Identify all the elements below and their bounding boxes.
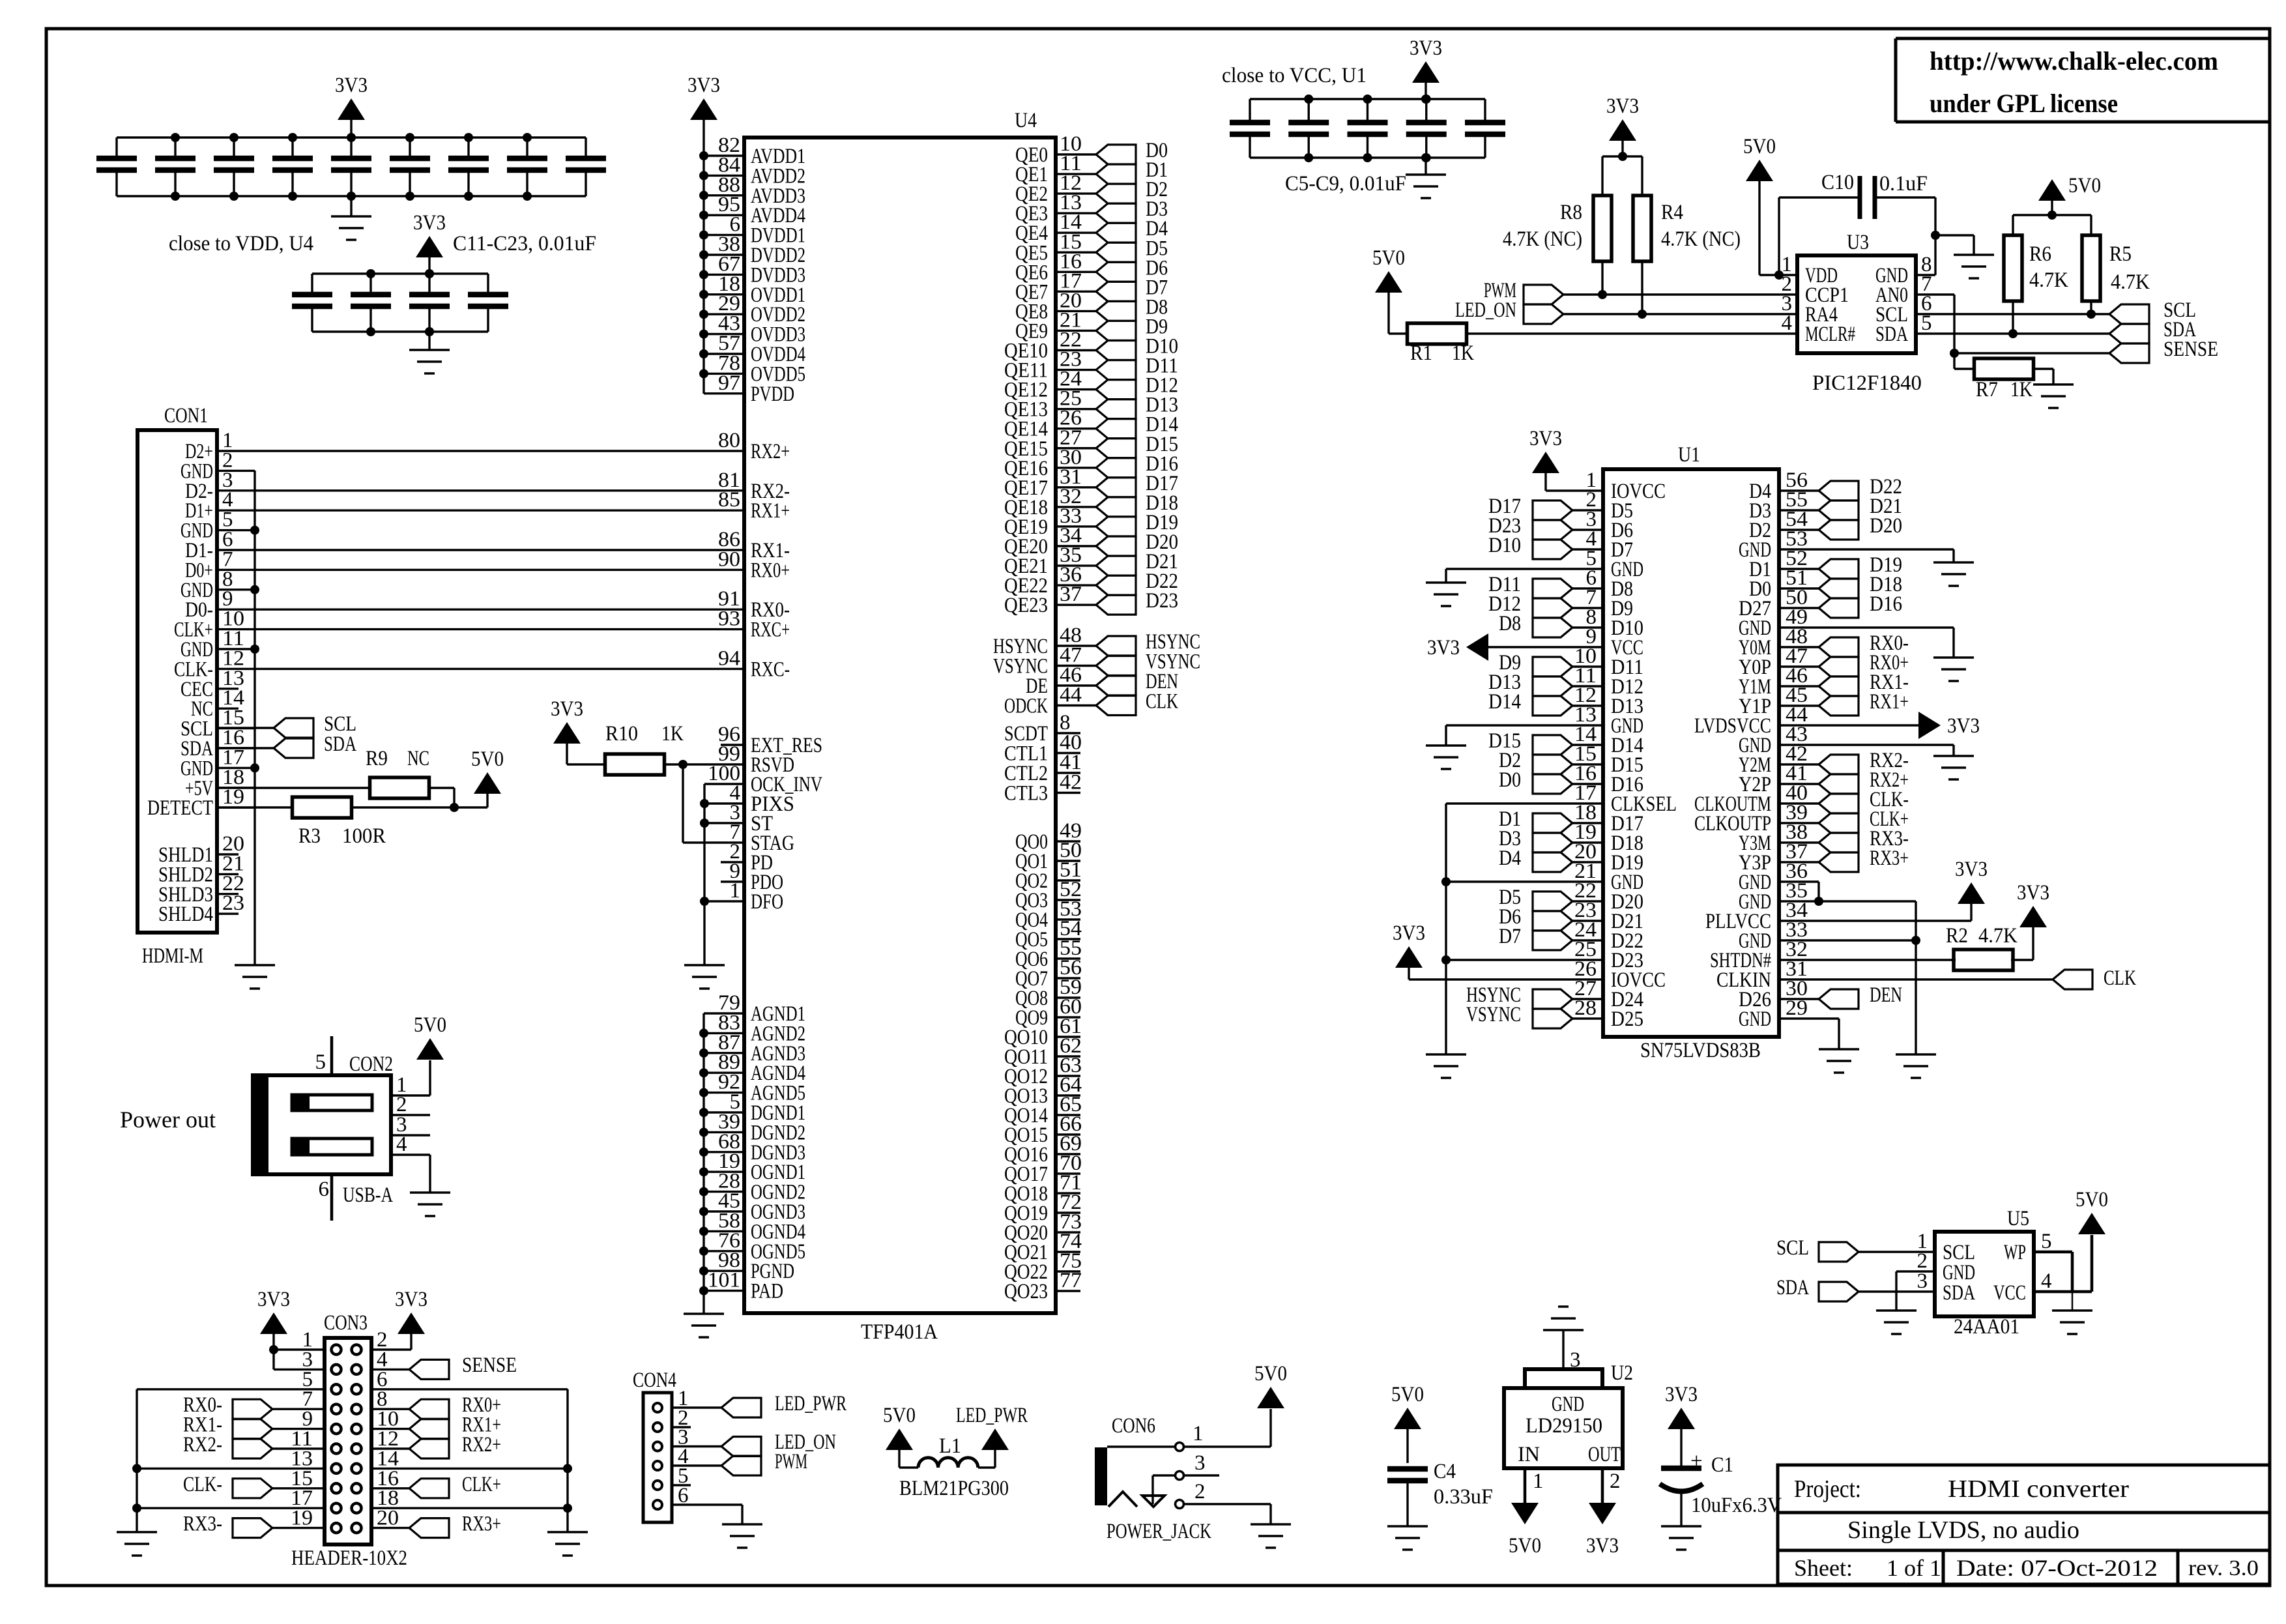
- wire CON6 pin2 to ground: [1184, 1504, 1271, 1524]
- svg-text:4.7K: 4.7K: [2111, 270, 2150, 294]
- svg-text:GND: GND: [1739, 1008, 1771, 1031]
- node RX0- flag (U1 pin 48): [1779, 631, 1909, 657]
- node CLK flag (U1 CLKIN): [2053, 966, 2136, 990]
- wire SDA flag to U5 pin3: [1859, 1290, 1935, 1292]
- node D18 flag (U1 pin 51): [1779, 573, 1902, 598]
- svg-text:OUT: OUT: [1588, 1443, 1621, 1466]
- wire 3V3 to U1 pin26: [1409, 968, 1603, 979]
- ground (U1 pin29): [1819, 1049, 1859, 1073]
- node D22 flag (U4 QE22): [1096, 570, 1178, 595]
- ground (second cap bank): [409, 332, 450, 373]
- svg-text:+: +: [1690, 1449, 1703, 1473]
- wire U1 pin53 GND to ground: [1779, 549, 1954, 562]
- node D23 flag (U1 pin 3): [1488, 514, 1603, 540]
- node RX1+ flag (U1 pin 45): [1779, 690, 1909, 716]
- svg-text:U4: U4: [1015, 109, 1037, 132]
- svg-text:1: 1: [1533, 1470, 1544, 1493]
- node D13 flag (U4 QE13): [1096, 394, 1178, 419]
- node HSYNC flag (U4 HSYNC): [1096, 630, 1200, 656]
- power 3V3 (C1): [1665, 1383, 1698, 1468]
- svg-text:Single LVDS, no audio: Single LVDS, no audio: [1847, 1516, 2079, 1544]
- connector CON6 POWER_JACK: [1095, 1414, 1219, 1543]
- svg-text:1 of 1: 1 of 1: [1887, 1555, 1941, 1581]
- svg-text:D23: D23: [1146, 589, 1178, 613]
- wire 5V0 to R6/R5 tops: [2013, 210, 2091, 235]
- wire CON1 pin6 D1- to U4 RX1-: [255, 549, 744, 551]
- svg-text:RX3+: RX3+: [1870, 847, 1909, 870]
- node CLK- flag (U1 pin 40): [1779, 788, 1909, 813]
- node SDA flag (CON1 pin16): [217, 732, 356, 758]
- svg-text:Project:: Project:: [1794, 1475, 1861, 1503]
- IC U1 SN75LVDS83B (LVDS serializer): [1574, 443, 1808, 1062]
- svg-text:SENSE: SENSE: [462, 1354, 517, 1377]
- node D9 flag (U1 pin 10): [1499, 651, 1603, 676]
- wire R10 junction to STAG pin: [683, 764, 744, 843]
- power 3V3 (U1 PLLVCC): [1955, 858, 1988, 904]
- svg-text:RX2+: RX2+: [462, 1433, 501, 1457]
- node RX0+ flag (CON3 right): [371, 1393, 501, 1419]
- wire U3 pin6 SCL to SCL flag: [1916, 310, 2109, 319]
- title block: [1778, 1465, 2270, 1584]
- node D2 flag (U4 QE2): [1096, 178, 1168, 203]
- node SDA flag (U5 pin3): [1776, 1276, 1859, 1301]
- node D1 flag (U1 pin 18): [1499, 807, 1603, 833]
- svg-text:CTL3: CTL3: [1004, 782, 1048, 805]
- svg-text:SDA: SDA: [1776, 1276, 1809, 1299]
- power 5V0 (R1 to MCLR#): [1372, 246, 1405, 334]
- node D7 flag (U4 QE7): [1096, 276, 1168, 301]
- power 3V3 (top cap bank): [335, 74, 368, 138]
- ground (U1 pin5): [1426, 583, 1466, 606]
- node SCL flag (U5 pin1): [1776, 1236, 1859, 1262]
- node RX0- flag (CON3 left): [183, 1393, 325, 1419]
- node RX2- flag (CON3 left): [183, 1433, 325, 1458]
- node LED_ON flag (to U3 RA4): [1455, 298, 1563, 324]
- node D19 flag (U4 QE19): [1096, 511, 1178, 536]
- node RX3- flag (CON3 pin19): [183, 1513, 325, 1538]
- wire CON3 pin1/pin3 to 3V3: [269, 1334, 325, 1369]
- ground (U4 gnd bus): [684, 1314, 724, 1337]
- svg-text:5V0: 5V0: [2076, 1188, 2108, 1211]
- node D14 flag (U4 QE14): [1096, 413, 1178, 439]
- svg-text:93: 93: [718, 607, 740, 631]
- svg-text:5V0: 5V0: [2068, 174, 2101, 197]
- node D4 flag (U1 pin 20): [1499, 847, 1603, 872]
- resistor R7 1K (sense divider): [1954, 358, 2053, 401]
- capacitor C10 0.1uF: [1779, 171, 1935, 275]
- svg-text:Power out: Power out: [120, 1107, 216, 1133]
- ground (CON3 left): [117, 1532, 157, 1556]
- node D10 flag (U1 pin 4): [1488, 534, 1603, 559]
- IC U5 24AA01 (EEPROM): [1917, 1207, 2052, 1339]
- svg-text:USB-A: USB-A: [343, 1183, 393, 1207]
- ground (C4): [1387, 1526, 1428, 1550]
- power 3V3 (U1 IOVCC pin1): [1529, 427, 1562, 473]
- wire CON1 pin7 D0+ to U4 RX0+: [255, 569, 744, 571]
- wire CON1 pin4 D1+ to U4 RX1+: [255, 510, 744, 512]
- svg-text:PIC12F1840: PIC12F1840: [1812, 371, 1922, 395]
- svg-text:RX0+: RX0+: [751, 558, 790, 582]
- power 5V0 (R6/R5 pull-ups): [2038, 174, 2101, 215]
- svg-text:RXC+: RXC+: [751, 618, 790, 642]
- svg-text:3V3: 3V3: [1606, 94, 1639, 118]
- wire CON1 pin1 D2+ to U4 RX2+: [255, 450, 744, 452]
- svg-text:5V0: 5V0: [1743, 135, 1776, 158]
- svg-text:PAD: PAD: [751, 1280, 783, 1303]
- node 3V3 right-arrow (U1 pin44 LVDSVCC): [1779, 712, 1980, 739]
- ground (U4 config pins): [684, 965, 725, 989]
- svg-text:CLK+: CLK+: [462, 1473, 501, 1496]
- wire 3V3 to R8/R4 tops: [1602, 152, 1642, 196]
- svg-text:20: 20: [377, 1507, 399, 1530]
- CON3 left ground rail wire (pins 5,13,17): [132, 1389, 325, 1532]
- svg-text:CON2: CON2: [349, 1052, 393, 1076]
- ground (U1 pin43): [1933, 756, 1974, 779]
- node RX3+ flag (CON3 pin20): [371, 1513, 501, 1538]
- svg-text:D20: D20: [1870, 514, 1902, 538]
- connector CON1 HDMI-M: [137, 404, 255, 968]
- svg-text:CON6: CON6: [1112, 1414, 1155, 1438]
- svg-text:GND: GND: [1552, 1393, 1584, 1416]
- wire CON1 pin12 CLK- to U4 RXC-: [255, 668, 744, 670]
- node D23 flag (U4 QE23): [1096, 589, 1178, 615]
- svg-text:R9: R9: [366, 747, 388, 770]
- svg-text:U2: U2: [1611, 1361, 1633, 1385]
- svg-text:D8: D8: [1499, 612, 1521, 635]
- CON3 right ground rail wire (pins 6,14,18): [371, 1389, 572, 1532]
- power 5V0 (CON2): [414, 1013, 446, 1060]
- svg-text:DEN: DEN: [1870, 983, 1902, 1007]
- svg-text:97: 97: [718, 371, 740, 395]
- svg-text:C4: C4: [1434, 1460, 1456, 1483]
- svg-text:LED_ON: LED_ON: [1455, 298, 1516, 322]
- ground (U1 CLKSEL rail): [1426, 1054, 1466, 1078]
- ground (CON2 pin4): [410, 1193, 450, 1216]
- node D8 flag (U1 pin 8): [1499, 612, 1603, 637]
- svg-text:3: 3: [1570, 1348, 1581, 1372]
- svg-text:SCL: SCL: [1776, 1236, 1809, 1260]
- resistor R2 4.7K (SHTDN# pull-up): [1779, 924, 2033, 970]
- node PWM flag (to U3 CCP1): [1484, 279, 1563, 304]
- wire U1 pin29 GND to ground: [1779, 1019, 1839, 1049]
- svg-text:VCC: VCC: [1993, 1281, 2026, 1305]
- node LED_PWR flag (CON4 pin1): [672, 1392, 846, 1417]
- svg-text:5V0: 5V0: [1254, 1362, 1287, 1385]
- svg-text:3: 3: [1917, 1269, 1928, 1293]
- svg-text:2: 2: [1610, 1470, 1621, 1493]
- svg-text:CLK: CLK: [1146, 690, 1178, 714]
- svg-text:SENSE: SENSE: [2163, 338, 2218, 361]
- node D9 flag (U4 QE9): [1096, 315, 1168, 340]
- svg-text:5: 5: [2041, 1230, 2052, 1253]
- node RX3+ flag (U1 pin 37): [1779, 847, 1909, 872]
- node CLK- flag (CON3 pin15): [183, 1473, 325, 1498]
- svg-text:ODCK: ODCK: [1004, 695, 1048, 718]
- ground (R7): [2033, 384, 2074, 408]
- node D20 flag (U4 QE20): [1096, 530, 1178, 556]
- power 3V3 (CON3 pins 1,3): [257, 1288, 290, 1334]
- svg-text:HDMI converter: HDMI converter: [1948, 1475, 2129, 1503]
- svg-text:WP: WP: [2004, 1241, 2026, 1264]
- node PWM flag (CON4 pin4): [672, 1450, 807, 1475]
- ground (top cap bank): [331, 196, 371, 240]
- node D20 flag (U1 pin 54): [1779, 514, 1902, 540]
- svg-text:R10: R10: [605, 722, 638, 746]
- svg-text:L1: L1: [939, 1434, 961, 1458]
- node RX1- flag (U1 pin 46): [1779, 671, 1909, 696]
- svg-text:5V0: 5V0: [471, 747, 504, 771]
- wire OCK_INV/PIXS/ST/DFO tie-down bus: [700, 784, 744, 965]
- svg-text:37: 37: [1060, 583, 1082, 606]
- ground (U1 pin49): [1933, 658, 1974, 681]
- svg-text:24AA01: 24AA01: [1954, 1315, 2019, 1339]
- svg-text:2: 2: [1194, 1480, 1206, 1503]
- wire U5 pin2 GND to ground: [1896, 1271, 1935, 1311]
- value label C5-C9, 0.01uF: [1285, 172, 1406, 196]
- power 3V3 (R8/R4 pull-ups): [1606, 94, 1639, 156]
- svg-text:D25: D25: [1611, 1008, 1643, 1031]
- node RX2+ flag (U1 pin 41): [1779, 768, 1909, 794]
- svg-text:R7: R7: [1976, 378, 1998, 401]
- svg-text:3V3: 3V3: [2017, 881, 2049, 905]
- svg-text:D7: D7: [1499, 925, 1521, 948]
- label close to VCC, U1: [1222, 64, 1367, 87]
- svg-text:19: 19: [291, 1507, 313, 1530]
- svg-text:3V3: 3V3: [395, 1288, 427, 1311]
- node D15 flag (U4 QE15): [1096, 433, 1178, 458]
- resistor R9 NC (+5V line): [217, 747, 454, 807]
- node D18 flag (U4 QE18): [1096, 491, 1178, 517]
- node D0 flag (U1 pin 16): [1499, 768, 1603, 794]
- power 5V0 (U5 VCC): [2076, 1188, 2108, 1234]
- node D17 flag (U4 QE17): [1096, 472, 1178, 497]
- svg-text:D14: D14: [1488, 690, 1521, 714]
- power 3V3 (second cap bank): [413, 211, 446, 274]
- node D21 flag (U4 QE21): [1096, 550, 1178, 575]
- svg-text:10uFx6.3V: 10uFx6.3V: [1691, 1494, 1782, 1517]
- svg-text:3V3: 3V3: [1947, 714, 1980, 738]
- resistor R3 100R (DETECT line): [217, 797, 487, 848]
- svg-text:1K: 1K: [1452, 341, 1474, 365]
- svg-text:3V3: 3V3: [413, 211, 446, 235]
- wire U1 CLKSEL/GND21/D23 tie rail: [1441, 804, 1603, 1054]
- svg-text:HEADER-10X2: HEADER-10X2: [291, 1546, 407, 1570]
- power 3V3 (R2): [2017, 881, 2049, 960]
- svg-text:VSYNC: VSYNC: [1466, 1003, 1521, 1026]
- svg-text:4.7K (NC): 4.7K (NC): [1503, 227, 1582, 251]
- resistor R6 4.7K (SDA pull-up): [2004, 235, 2068, 334]
- svg-text:R2: R2: [1946, 924, 1968, 948]
- svg-text:3V3: 3V3: [551, 697, 583, 721]
- wire LED_ON flag to U3 pin3: [1563, 310, 1797, 319]
- node D22 flag (U1 pin 56): [1779, 475, 1902, 500]
- svg-text:3V3: 3V3: [1410, 36, 1442, 60]
- wire U1 pin31 CLKIN to CLK flag: [1779, 978, 2053, 980]
- wire 5V0 to U3 pin1 VDD: [1759, 270, 1797, 280]
- node D0 flag (U4 QE0): [1096, 139, 1168, 164]
- wire CON6 pin1 to 5V0: [1184, 1409, 1271, 1447]
- svg-text:77: 77: [1060, 1269, 1082, 1292]
- svg-text:SDA: SDA: [1875, 323, 1908, 346]
- node RX1+ flag (CON3 right): [371, 1414, 501, 1439]
- ground (U1 pin35/33): [1896, 1054, 1936, 1078]
- node D4 flag (U4 QE4): [1096, 217, 1168, 242]
- wire U1 pin5 GND to ground: [1446, 569, 1603, 583]
- node D12 flag (U1 pin 7): [1488, 592, 1603, 618]
- svg-text:BLM21PG300: BLM21PG300: [899, 1477, 1009, 1500]
- svg-text:3V3: 3V3: [1665, 1383, 1698, 1406]
- node D14 flag (U1 pin 12): [1488, 690, 1603, 716]
- node D12 flag (U4 QE12): [1096, 374, 1178, 399]
- svg-text:HDMI-M: HDMI-M: [142, 944, 203, 968]
- IC U4 TFP401A (DVI receiver): [704, 109, 1096, 1344]
- svg-text:R3: R3: [298, 824, 321, 848]
- power 5V0 (C4): [1391, 1383, 1424, 1463]
- U4 analog/digital ground bus wire: [699, 1013, 708, 1314]
- node D6 flag (U4 QE6): [1096, 256, 1168, 282]
- svg-text:4.7K: 4.7K: [2029, 268, 2068, 292]
- svg-text:1K: 1K: [661, 722, 684, 746]
- svg-text:90: 90: [718, 547, 740, 571]
- node DEN flag (U1 pin30 D26): [1779, 983, 1902, 1009]
- svg-text:5V0: 5V0: [1509, 1534, 1541, 1558]
- svg-text:RX3+: RX3+: [462, 1513, 501, 1536]
- svg-text:3V3: 3V3: [257, 1288, 290, 1311]
- svg-text:3V3: 3V3: [687, 74, 720, 97]
- svg-text:DFO: DFO: [751, 890, 783, 914]
- svg-text:QO23: QO23: [1004, 1280, 1048, 1303]
- node D17 flag (U1 pin 2): [1488, 495, 1603, 520]
- svg-text:C10: C10: [1821, 171, 1854, 194]
- svg-text:CON3: CON3: [324, 1311, 368, 1335]
- svg-text:U1: U1: [1678, 443, 1700, 467]
- svg-text:MCLR#: MCLR#: [1805, 323, 1855, 346]
- svg-text:PWM: PWM: [775, 1450, 807, 1473]
- svg-text:SHLD4: SHLD4: [158, 903, 213, 926]
- svg-text:5V0: 5V0: [883, 1404, 916, 1427]
- node CLK flag (U4 ODCK): [1096, 690, 1178, 716]
- node D3 flag (U4 QE3): [1096, 197, 1168, 223]
- wire CON1 pin10 CLK+ to U4 RXC+: [255, 628, 744, 630]
- svg-text:42: 42: [1060, 771, 1082, 794]
- svg-text:LED_PWR: LED_PWR: [956, 1404, 1028, 1427]
- svg-text:POWER_JACK: POWER_JACK: [1107, 1520, 1211, 1543]
- wire PWM flag to U3 pin2: [1563, 290, 1797, 299]
- wire SCL flag to U5 pin1: [1859, 1251, 1935, 1253]
- svg-text:RX2+: RX2+: [751, 440, 790, 463]
- node RX2- flag (U1 pin 42): [1779, 749, 1909, 774]
- svg-text:23: 23: [222, 892, 244, 915]
- wire U1 pin36 GND to pin35: [1779, 882, 1823, 906]
- node SENSE flag (CON3 pin4): [371, 1354, 517, 1379]
- svg-text:4.7K (NC): 4.7K (NC): [1661, 227, 1741, 251]
- svg-text:D4: D4: [1499, 847, 1521, 870]
- node D3 flag (U1 pin 19): [1499, 827, 1603, 852]
- svg-text:QE23: QE23: [1004, 594, 1048, 617]
- svg-text:CON4: CON4: [633, 1369, 676, 1392]
- node D8 flag (U4 QE8): [1096, 295, 1168, 321]
- svg-text:44: 44: [1060, 684, 1082, 707]
- resistor R5 4.7K (SCL pull-up): [2082, 235, 2150, 314]
- resistor R8 4.7K (NC): [1503, 196, 1612, 295]
- node RX2+ flag (CON3 right): [371, 1433, 501, 1458]
- capacitor bank (4 bypass caps, 3V3): [292, 269, 508, 336]
- svg-text:1K: 1K: [2010, 378, 2033, 401]
- svg-text:NC: NC: [407, 747, 429, 770]
- power 5V0 (U3 VDD): [1743, 135, 1776, 275]
- ground (C1): [1661, 1526, 1701, 1550]
- connector CON4: [633, 1369, 691, 1522]
- svg-text:close to VCC, U1: close to VCC, U1: [1222, 64, 1367, 87]
- power 3V3 (CON3 pin2): [395, 1288, 427, 1334]
- node D2 flag (U1 pin 15): [1499, 749, 1603, 774]
- connector CON3 HEADER-10X2: [291, 1311, 407, 1570]
- node D5 flag (U4 QE5): [1096, 237, 1168, 262]
- svg-text:R8: R8: [1560, 201, 1582, 224]
- capacitor C1 10uFx6.3V (polarized): [1660, 1449, 1782, 1526]
- svg-text:3V3: 3V3: [1529, 427, 1562, 450]
- node D16 flag (U1 pin 50): [1779, 592, 1902, 618]
- capacitor bank C5-C9 (bypass caps close to VCC U1): [1230, 94, 1505, 162]
- wire CON4 pin6 to ground: [672, 1505, 742, 1524]
- svg-text:6: 6: [319, 1178, 330, 1201]
- power 3V3 (U1 pin26 IOVCC): [1393, 921, 1425, 968]
- wire 3V3 to U1 pin1: [1546, 473, 1603, 491]
- ground (CON3 right): [547, 1532, 588, 1556]
- wire CON3 pin2 to 3V3: [371, 1334, 411, 1350]
- wire U1 pin49 GND to ground: [1779, 628, 1954, 658]
- node RX1- flag (CON3 left): [183, 1414, 325, 1439]
- ground (U3 pin8): [1954, 255, 1994, 278]
- node CLK+ flag (CON3 pin16): [371, 1473, 501, 1498]
- svg-text:http://www.chalk-elec.com: http://www.chalk-elec.com: [1930, 46, 2218, 76]
- svg-text:100R: 100R: [342, 824, 386, 848]
- wire U1 pin34 PLLVCC to 3V3: [1779, 904, 1971, 921]
- node SENSE flag (U3 side): [2109, 338, 2218, 363]
- ground (U1 pin13): [1426, 746, 1466, 769]
- node D7 flag (U1 pin 24): [1499, 925, 1603, 950]
- node SDA flag (U3 side): [2109, 318, 2196, 343]
- power LED_PWR net arrow (L1 output): [956, 1404, 1028, 1468]
- resistor R1 1K (MCLR#): [1389, 323, 1474, 365]
- value label C11-C23, 0.01uF: [453, 232, 596, 255]
- svg-text:85: 85: [718, 488, 740, 512]
- node 3V3 left-arrow (U1 pin9 VCC): [1427, 633, 1603, 661]
- capacitor bank C11-C23 (bypass caps close to VDD U4): [96, 133, 606, 201]
- node D13 flag (U1 pin 11): [1488, 671, 1603, 696]
- ground (CON1 shield/gnd): [235, 965, 275, 989]
- wire R1 to U3 pin4 MCLR#: [1466, 332, 1797, 334]
- svg-text:R4: R4: [1661, 201, 1683, 224]
- svg-text:1: 1: [730, 879, 741, 903]
- svg-text:CON1: CON1: [164, 404, 208, 428]
- svg-text:D10: D10: [1488, 534, 1521, 557]
- node D11 flag (U4 QE11): [1096, 355, 1178, 380]
- svg-text:101: 101: [708, 1269, 740, 1292]
- svg-text:RX1+: RX1+: [751, 499, 790, 523]
- svg-text:4: 4: [2041, 1269, 2052, 1293]
- connector CON2 USB-A (power out): [253, 1036, 430, 1221]
- svg-text:TFP401A: TFP401A: [861, 1320, 938, 1344]
- power 3V3 down-arrow (U2 OUT): [1586, 1503, 1619, 1558]
- wire CON1 pin3 D2- to U4 RX2-: [255, 489, 744, 491]
- svg-text:3: 3: [1194, 1451, 1206, 1475]
- svg-text:5: 5: [315, 1051, 326, 1074]
- svg-text:LD29150: LD29150: [1526, 1414, 1602, 1438]
- wire CON2 pin4 to ground: [391, 1155, 430, 1193]
- svg-text:0.1uF: 0.1uF: [1879, 172, 1928, 196]
- svg-text:RX1+: RX1+: [1870, 690, 1909, 714]
